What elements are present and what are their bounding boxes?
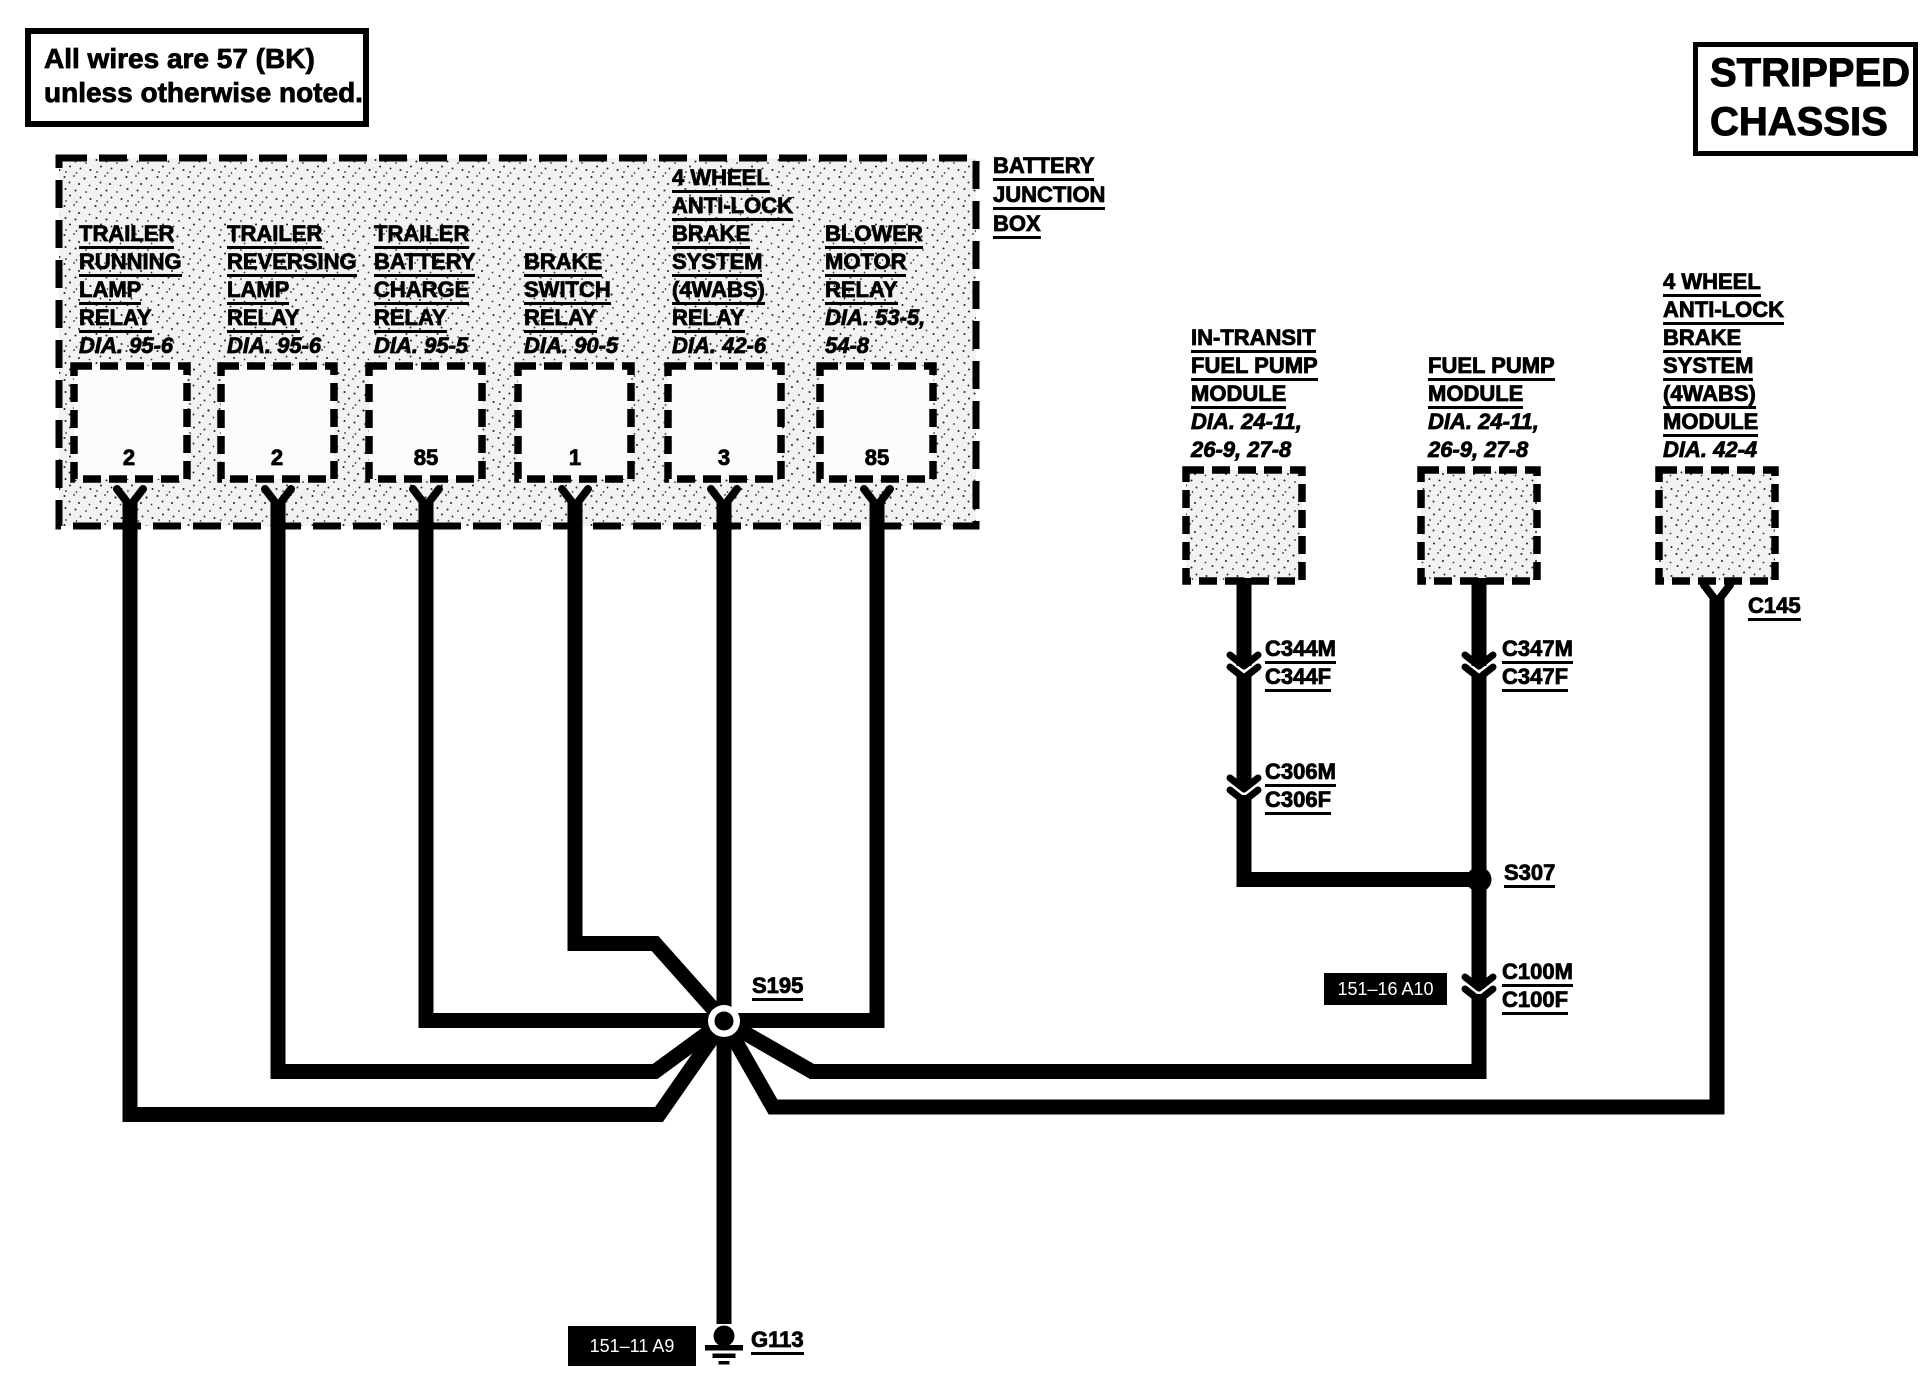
label R4 brake switch relay xyxy=(524,248,618,360)
splice S195 junction ring xyxy=(708,1005,740,1037)
label S307 xyxy=(1504,859,1555,887)
stripped chassis title box xyxy=(1693,42,1918,156)
relay box R4 brake switch relay xyxy=(518,366,631,479)
note box: all wires are 57 BK xyxy=(25,28,369,127)
relay box R2 trailer reversing lamp relay xyxy=(221,366,334,479)
label R6 blower motor relay xyxy=(825,220,925,360)
pin fork R5 xyxy=(711,489,737,506)
label 4WABS module xyxy=(1663,268,1784,464)
battery junction box (dashed outline, speckled fill) xyxy=(59,158,976,526)
label R5 4WABS relay xyxy=(672,164,793,360)
relay box R3 trailer battery charge relay xyxy=(369,366,482,479)
connector C306 arrow + fork xyxy=(1230,778,1258,801)
pin 2 of R1 xyxy=(123,445,135,471)
label R2 trailer reversing lamp relay xyxy=(227,220,357,360)
pin 2 of R2 xyxy=(271,445,283,471)
label fuel pump module xyxy=(1428,352,1555,464)
label S195 xyxy=(752,972,803,1000)
connector C344 arrow + fork xyxy=(1230,655,1258,678)
label R3 trailer battery charge relay xyxy=(374,220,475,360)
pin 3 of R5 xyxy=(718,445,730,471)
wire from R1 pin 2 to S195 (via lower-left horizontal) xyxy=(130,500,724,1115)
label C344M / C344F xyxy=(1265,635,1336,691)
connector C100 arrow + fork xyxy=(1465,977,1493,1000)
wire from S195 down to ground G113 xyxy=(717,1021,732,1324)
pin 85 of R3 xyxy=(414,445,438,471)
label C347M / C347F xyxy=(1502,635,1573,691)
pin fork R3 xyxy=(413,489,439,506)
label C145 xyxy=(1748,592,1801,620)
pin 85 of R6 xyxy=(865,445,889,471)
wire from S195 to 4WABS module via C145 (right horizontal 2) xyxy=(724,596,1717,1107)
connector C347 arrow + fork xyxy=(1465,655,1493,678)
pin 1 of R4 xyxy=(569,445,581,471)
wire from R3 pin 85 to S195 (junction-level horizontal) xyxy=(426,500,724,1021)
relay box R5 4WABS relay xyxy=(668,366,781,479)
splice S307 dot xyxy=(1467,867,1492,892)
relay box R1 trailer running lamp relay xyxy=(74,366,187,479)
relay box R6 blower motor relay xyxy=(820,366,933,479)
wire from S195 to fuel pump module via C100 (right horizontal 1) xyxy=(724,578,1479,1072)
tag 151-16 A10 xyxy=(1324,973,1447,1005)
label C306M / C306F xyxy=(1265,758,1336,814)
label G113 xyxy=(751,1326,804,1354)
label battery junction box xyxy=(993,151,1105,238)
connector C145 fork xyxy=(1704,585,1730,602)
label in-transit fuel pump module xyxy=(1191,324,1318,464)
pin fork R1 xyxy=(117,489,143,506)
module box in-transit fuel pump xyxy=(1186,470,1302,581)
label R1 trailer running lamp relay xyxy=(79,220,182,360)
pin fork R4 xyxy=(562,489,588,506)
tag 151-11 A9 xyxy=(568,1326,696,1366)
pin fork R6 xyxy=(864,489,890,506)
module box fuel pump xyxy=(1421,470,1537,581)
wire from in-transit fuel pump module to S307 xyxy=(1244,578,1479,880)
wire from R6 pin 85 to S195 xyxy=(724,500,877,1021)
label C100M / C100F xyxy=(1502,958,1573,1014)
wire from R5 pin 3 to S195 (vertical) xyxy=(717,500,732,1021)
wire from R4 pin 1 to S195 xyxy=(575,500,724,1021)
wire from R2 pin 2 to S195 xyxy=(278,500,724,1072)
module box 4WABS xyxy=(1659,470,1775,581)
pin fork R2 xyxy=(265,489,291,506)
ground G113 symbol xyxy=(705,1326,743,1365)
